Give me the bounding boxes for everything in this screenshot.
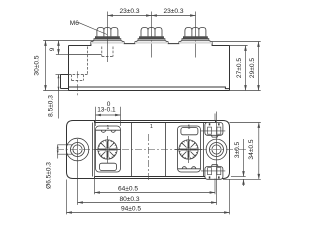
flange boss circle right — [206, 139, 227, 160]
dimension 9 — [56, 54, 69, 56]
dimension 34±0.5 — [230, 122, 261, 124]
dimension 27±0.5 — [230, 45, 248, 47]
dimension 23±0.3 (T2-T3) — [152, 15, 196, 17]
left flange tab (plan) — [67, 121, 95, 179]
gate terminal block top — [201, 123, 225, 138]
mounting hole right — [210, 143, 224, 157]
terminal hole symbol 2 — [175, 136, 202, 163]
nut M6 terminal 1 — [97, 28, 118, 37]
svg-text:M6: M6 — [70, 20, 79, 27]
module case outline — [69, 42, 230, 91]
hole centerline — [77, 71, 79, 95]
svg-text:Ø6.5±0.3: Ø6.5±0.3 — [45, 162, 52, 189]
mounting hole left — [71, 143, 85, 157]
svg-text:94±0.5: 94±0.5 — [121, 206, 141, 213]
terminal boss 2 — [135, 37, 168, 44]
dimension 3±0.5 — [231, 176, 246, 178]
svg-text:80±0.3: 80±0.3 — [119, 196, 139, 203]
hidden conductor under boss 1 — [102, 47, 113, 57]
svg-text:9: 9 — [49, 47, 56, 51]
lid seam line — [69, 54, 102, 56]
svg-text:30±0.5: 30±0.5 — [33, 55, 40, 75]
svg-text:29±0.5: 29±0.5 — [249, 58, 256, 78]
dimension 80±0.3 — [78, 112, 217, 205]
svg-text:8.5±0.3: 8.5±0.3 — [47, 95, 54, 117]
section lines — [92, 123, 203, 177]
dimension 13 -0.1 — [96, 107, 121, 126]
hidden inner wall — [87, 47, 89, 75]
svg-text:1: 1 — [188, 125, 191, 131]
svg-text:34±0.5: 34±0.5 — [248, 139, 255, 159]
terminal 2 centerline — [151, 12, 153, 58]
dimension 23±0.3 (T1-T2) — [108, 15, 152, 17]
svg-text:0: 0 — [107, 101, 111, 108]
dimension Ø6.5±0.3 — [57, 145, 73, 154]
hidden flange top line — [69, 74, 88, 76]
main horizontal centerline — [57, 149, 248, 151]
dimension 94±0.5 — [67, 180, 230, 215]
right flange (plan) — [216, 121, 230, 179]
svg-text:64±0.5: 64±0.5 — [118, 185, 138, 192]
dimension 64±0.5 — [95, 123, 216, 195]
terminal boss 1 — [91, 37, 124, 44]
svg-text:23±0.3: 23±0.3 — [119, 8, 139, 15]
terminal pad 1 (plan) — [96, 126, 121, 172]
nut M6 terminal 3 — [185, 28, 206, 37]
terminal hole symbol 1 — [94, 136, 121, 163]
terminal 3 centerline — [195, 12, 197, 58]
terminal 1 centerline — [107, 12, 109, 63]
dimension 29±0.5 — [212, 41, 261, 43]
svg-text:1: 1 — [150, 124, 153, 130]
flange boss circle left — [66, 138, 89, 161]
svg-text:27±0.5: 27±0.5 — [236, 58, 243, 78]
nut M6 terminal 2 — [141, 28, 162, 37]
gate terminal block bottom — [201, 165, 225, 180]
svg-text:3±0.5: 3±0.5 — [234, 142, 241, 159]
left mounting flange tab (side view) — [61, 75, 69, 91]
svg-text:1: 1 — [107, 125, 110, 131]
hidden mounting hole (side view) — [72, 75, 84, 81]
body outline (plan) — [95, 121, 216, 179]
vertical centerline T2 — [147, 134, 149, 181]
terminal pad 2 (plan) — [178, 126, 201, 172]
dimension 8.5±0.3 — [56, 74, 61, 76]
terminal boss 3 — [179, 37, 212, 44]
svg-text:23±0.3: 23±0.3 — [163, 8, 183, 15]
dimension 30±0.5 — [43, 40, 94, 42]
M6 leader — [78, 22, 107, 34]
